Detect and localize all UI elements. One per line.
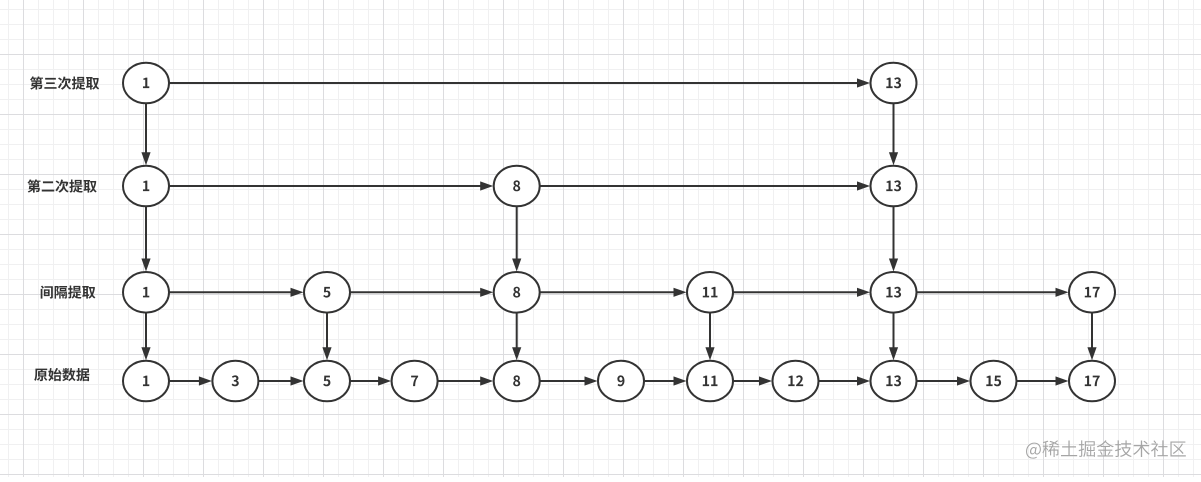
wire arrow 1:第二次提取→间隔提取: [141, 206, 150, 271]
wire arrow 原始数据 13→15: [917, 376, 971, 385]
wire arrow 第三次提取 1→13: [169, 78, 870, 87]
node 9 (原始数据): [598, 361, 644, 402]
node 5 (原始数据): [304, 361, 350, 402]
wire arrow 原始数据 1→3: [169, 376, 212, 385]
wire arrow 原始数据 5→7: [350, 376, 391, 385]
watermark @稀土掘金技术社区: [1026, 440, 1186, 458]
node 8 (原始数据): [494, 361, 540, 402]
node 7 (原始数据): [392, 361, 438, 402]
row label 第三次提取: [30, 76, 99, 89]
node 11 (间隔提取): [687, 272, 733, 313]
wire arrow 原始数据 11→12: [733, 376, 772, 385]
wire arrow 第二次提取 8→13: [540, 181, 870, 190]
node 13 (原始数据): [871, 361, 917, 402]
row label 间隔提取: [41, 286, 96, 299]
wire arrow 原始数据 8→9: [540, 376, 598, 385]
node 13 (第三次提取): [871, 63, 917, 104]
node 11 (原始数据): [687, 361, 733, 402]
wire arrow 间隔提取 13→17: [917, 288, 1069, 297]
node 3 (原始数据): [212, 361, 258, 402]
node 8 (第二次提取): [494, 166, 540, 207]
wire arrow 原始数据 9→11: [644, 376, 687, 385]
wire arrow 5:间隔提取→原始数据: [322, 313, 331, 361]
node 13 (第二次提取): [871, 166, 917, 207]
wire arrow 1:第三次提取→第二次提取: [141, 103, 150, 165]
node 13 (间隔提取): [871, 272, 917, 313]
row label 原始数据: [34, 368, 89, 381]
wire arrow 13:第三次提取→第二次提取: [889, 103, 898, 165]
wire arrow 8:间隔提取→原始数据: [512, 313, 521, 361]
wire arrow 11:间隔提取→原始数据: [705, 313, 714, 361]
node 12 (原始数据): [773, 361, 819, 402]
wire arrow 原始数据 12→13: [819, 376, 871, 385]
node 1 (间隔提取): [123, 272, 169, 313]
node 1 (第二次提取): [123, 166, 169, 207]
wire arrow 间隔提取 8→11: [540, 288, 687, 297]
wire arrow 第二次提取 1→8: [169, 181, 493, 190]
wire arrow 原始数据 7→8: [438, 376, 494, 385]
wire arrow 原始数据 3→5: [258, 376, 303, 385]
row label 第二次提取: [27, 179, 96, 192]
wire arrow 13:第二次提取→间隔提取: [889, 206, 898, 271]
node 17 (原始数据): [1069, 361, 1115, 402]
wire arrow 间隔提取 5→8: [350, 288, 493, 297]
wire arrow 1:间隔提取→原始数据: [141, 313, 150, 361]
node 5 (间隔提取): [304, 272, 350, 313]
wire arrow 间隔提取 11→13: [733, 288, 870, 297]
node 1 (第三次提取): [123, 63, 169, 104]
wire arrow 8:第二次提取→间隔提取: [512, 206, 521, 271]
wire arrow 原始数据 15→17: [1017, 376, 1069, 385]
wire arrow 17:间隔提取→原始数据: [1087, 313, 1096, 361]
wire arrow 13:间隔提取→原始数据: [889, 313, 898, 361]
node 17 (间隔提取): [1069, 272, 1115, 313]
node 15 (原始数据): [971, 361, 1017, 402]
wire arrow 间隔提取 1→5: [169, 288, 304, 297]
node 8 (间隔提取): [494, 272, 540, 313]
node 1 (原始数据): [123, 361, 169, 402]
